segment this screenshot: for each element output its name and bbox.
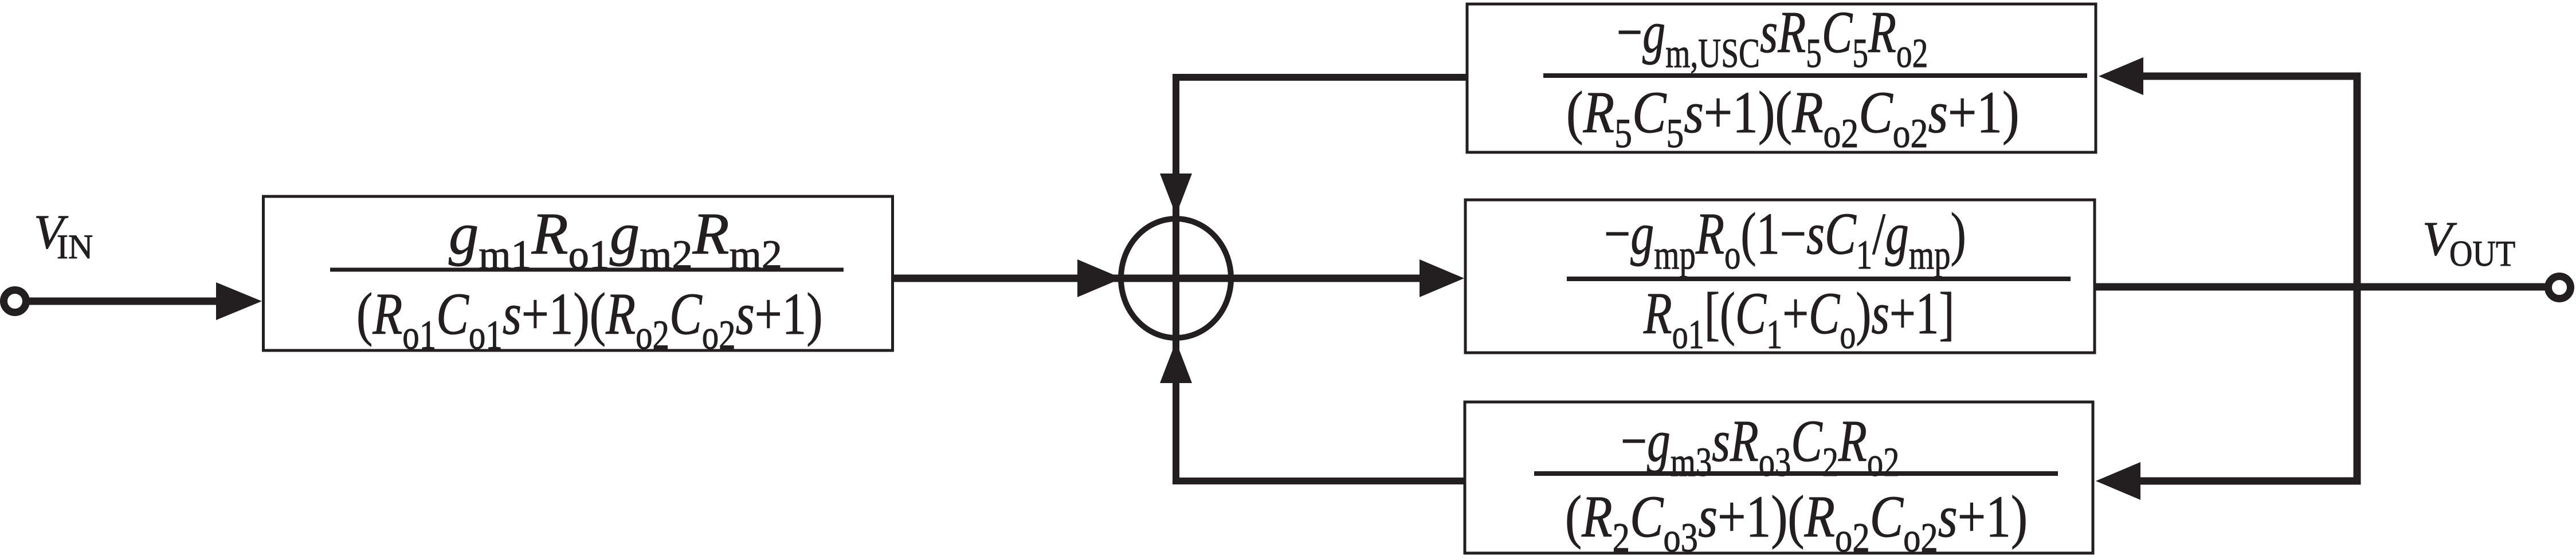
svg-text:(R5C5s+1)(Ro2Co2s+1): (R5C5s+1)(Ro2Co2s+1) <box>1566 80 2020 156</box>
svg-text:−gm,USCsR5C5Ro2: −gm,USCsR5C5Ro2 <box>1617 0 1928 76</box>
svg-text:IN: IN <box>57 228 93 266</box>
svg-text:OUT: OUT <box>2449 234 2515 274</box>
svg-text:(R2Co3s+1)(Ro2Co2s+1): (R2Co3s+1)(Ro2Co2s+1) <box>1565 483 2028 560</box>
